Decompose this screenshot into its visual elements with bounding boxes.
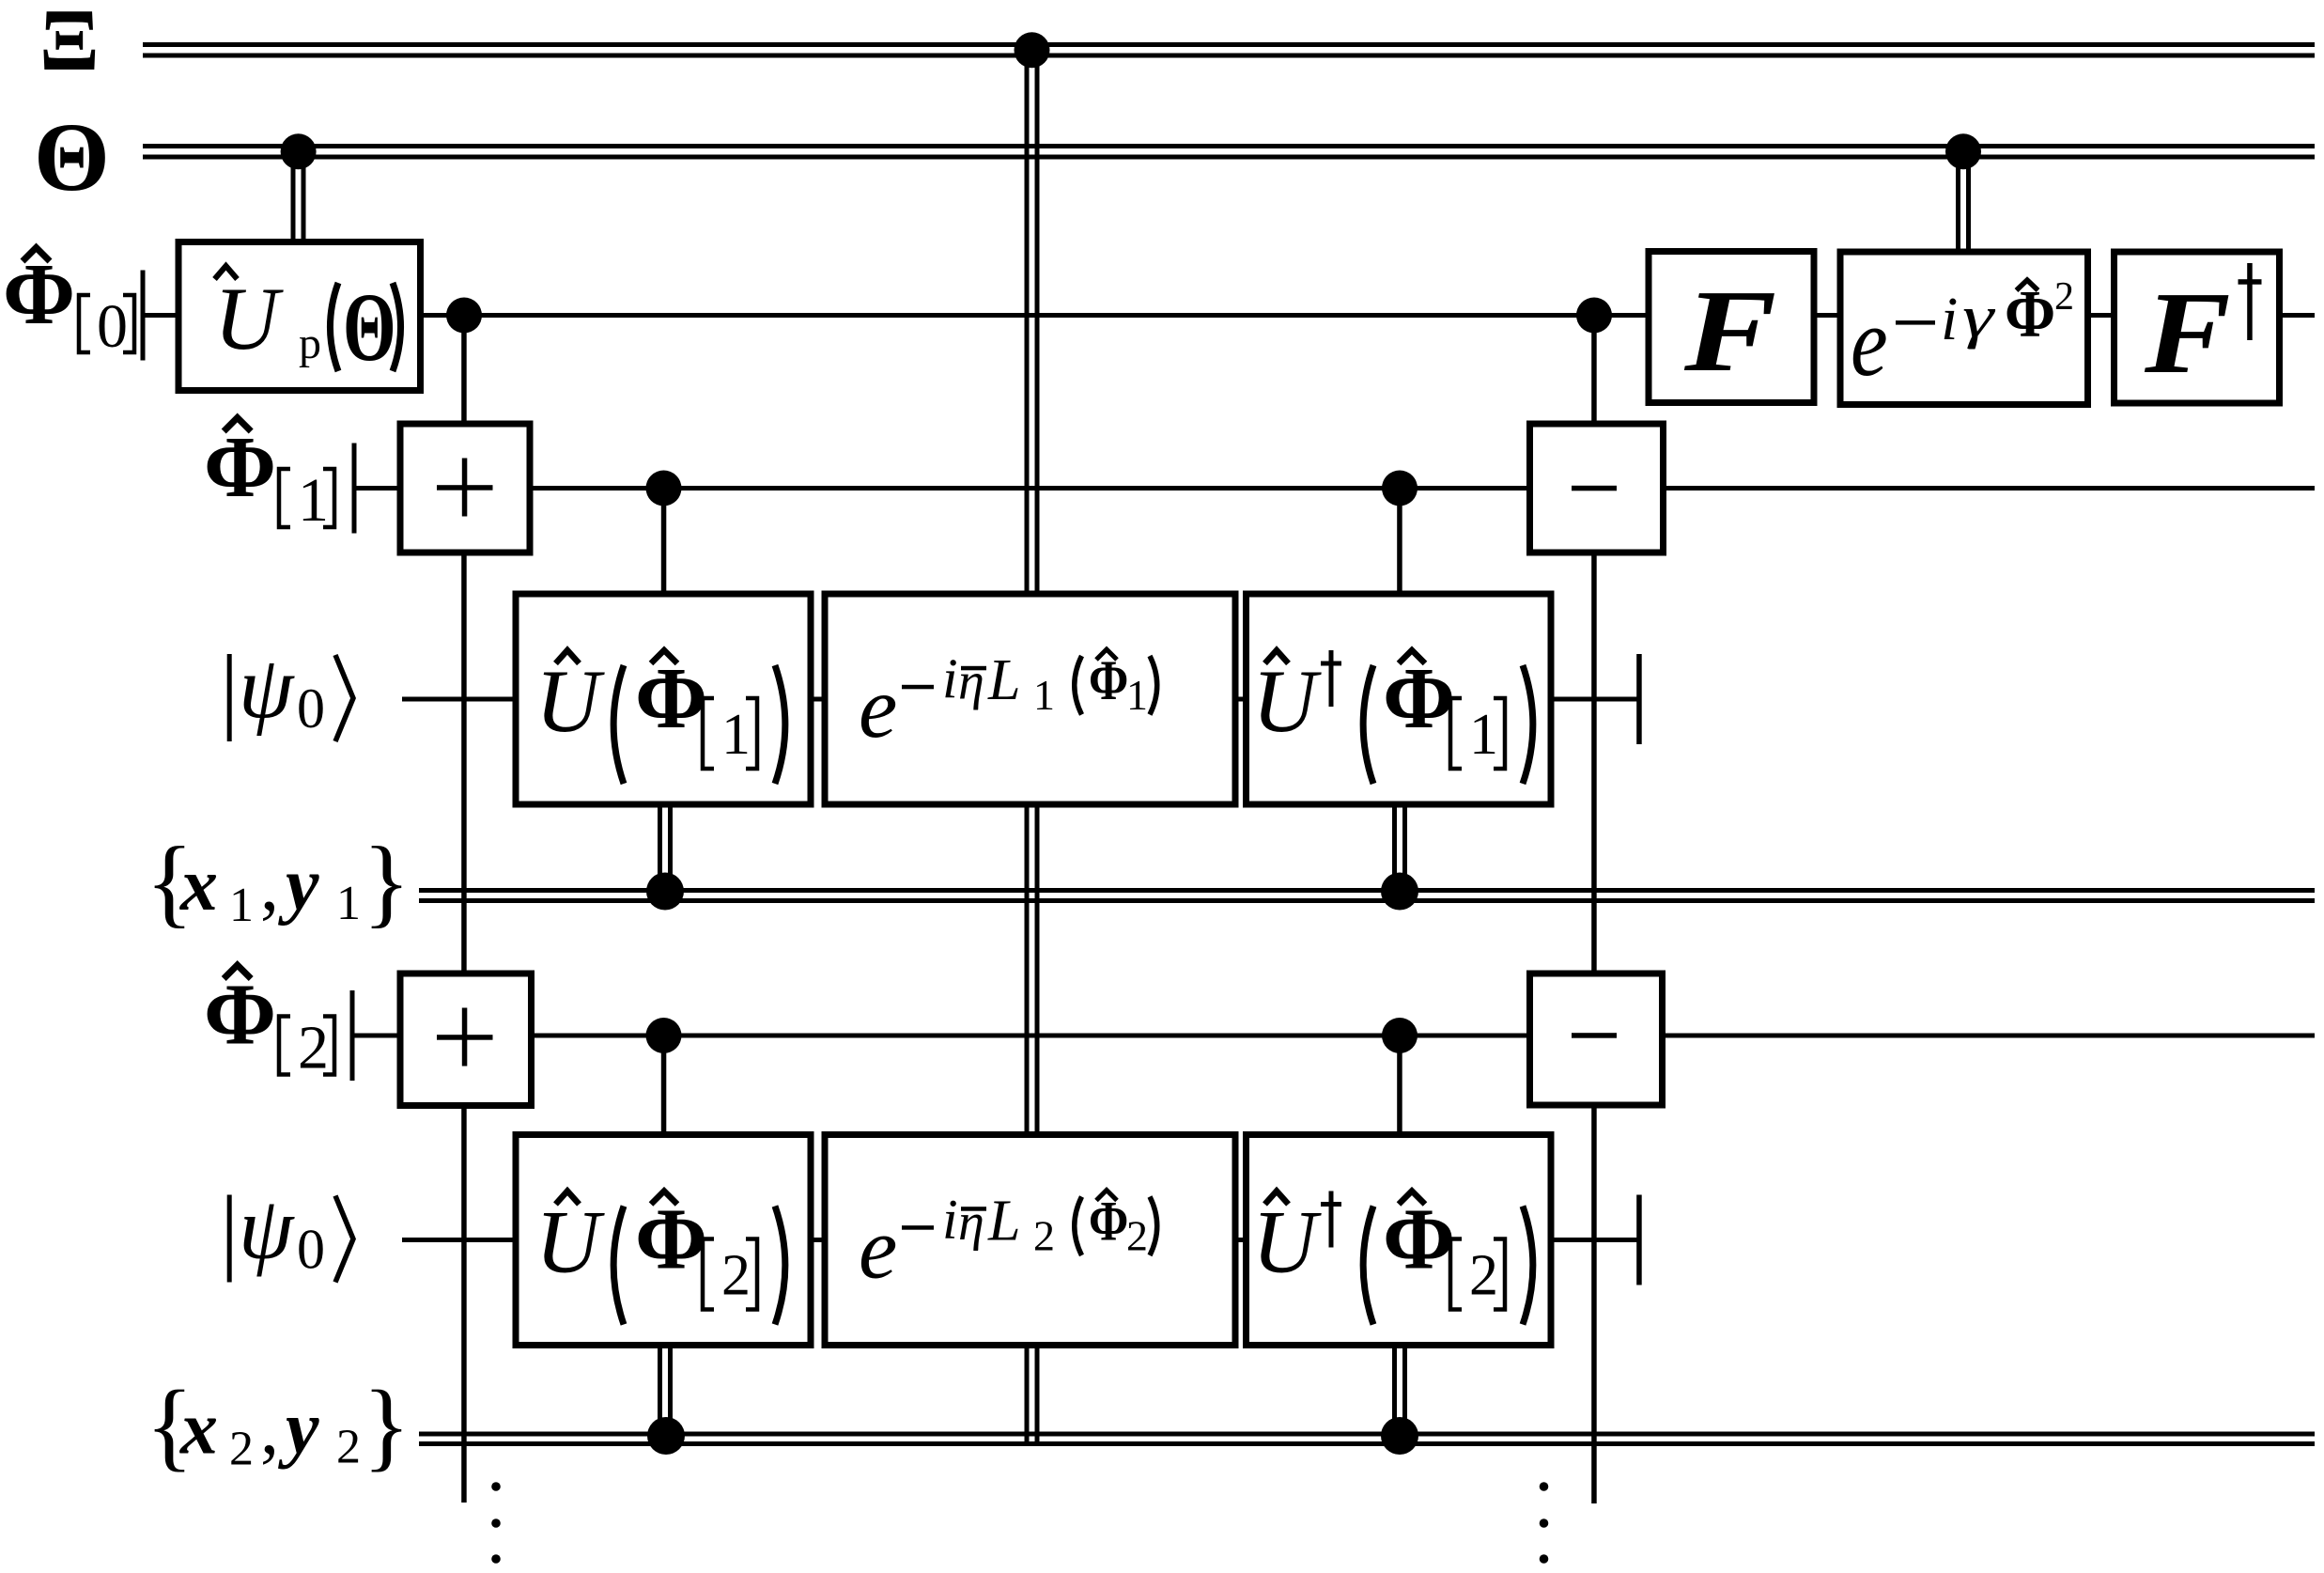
gate label U(Phi[2]) bbox=[535, 1191, 785, 1325]
gate exp(-i eta L1) box bbox=[825, 594, 1235, 804]
svg-text:1: 1 bbox=[1469, 703, 1498, 767]
gate label exp(-i gamma Phi^2) bbox=[1851, 275, 2074, 397]
svg-text:U: U bbox=[535, 1192, 605, 1292]
control line Phi[1] to U-dagger gate bbox=[1397, 489, 1402, 597]
double line U gate row2 to {x2,y2} bbox=[658, 1342, 673, 1443]
svg-text:1: 1 bbox=[229, 879, 254, 932]
vertical line Phi[0] to minus gates (col E) bbox=[1591, 316, 1597, 1504]
termination bar psi row1 bbox=[1636, 654, 1642, 744]
svg-text:2: 2 bbox=[1033, 1212, 1055, 1260]
central double control line Xi to exp gates bbox=[1025, 50, 1040, 1443]
gate label exp(-i eta L1(Phi1)) bbox=[859, 647, 1157, 756]
svg-text:i: i bbox=[1941, 285, 1958, 353]
svg-text:F: F bbox=[1683, 265, 1776, 396]
label set x2 y2 bbox=[146, 1371, 411, 1481]
svg-text:1: 1 bbox=[721, 703, 751, 767]
svg-text:Φ: Φ bbox=[1089, 1191, 1128, 1254]
wire tick Phi[0] bbox=[141, 271, 146, 361]
label ket psi0 row1 bbox=[227, 639, 353, 741]
gate plus box row Phi[2] bbox=[400, 973, 532, 1106]
double line U-dagger gate row2 to {x2,y2} bbox=[1392, 1342, 1407, 1443]
plus symbol row Phi[2] bbox=[437, 1008, 493, 1067]
svg-text:η: η bbox=[958, 1193, 984, 1252]
control dot on Phi[2] right bbox=[1382, 1018, 1418, 1053]
svg-text:}: } bbox=[363, 827, 411, 937]
svg-text:2: 2 bbox=[1469, 1244, 1498, 1308]
svg-text:1: 1 bbox=[1126, 671, 1148, 719]
gate F box bbox=[1649, 252, 1814, 403]
control dot on {x2,y2} right bbox=[1381, 1417, 1418, 1455]
wire tick Phi[2] bbox=[350, 990, 355, 1081]
classical wire {x2,y2} (double line) bbox=[419, 1432, 2315, 1447]
vertical dots right bbox=[1540, 1482, 1549, 1564]
gate plus box row Phi[1] bbox=[400, 424, 530, 553]
svg-text:U: U bbox=[1252, 1192, 1322, 1292]
svg-text:Φ: Φ bbox=[2005, 276, 2055, 350]
classical wire {x1,y1} (double line) bbox=[419, 888, 2315, 903]
vertical line Phi[0] to plus gates (col B) bbox=[461, 316, 467, 1503]
svg-text:p: p bbox=[299, 319, 321, 368]
label Phi[0] bbox=[3, 246, 134, 361]
svg-text:Φ: Φ bbox=[1089, 649, 1128, 712]
svg-text:U: U bbox=[535, 651, 605, 751]
svg-text:γ: γ bbox=[1962, 284, 1996, 350]
gate label U(Phi[1]) bbox=[535, 650, 785, 784]
gate F-dagger box bbox=[2115, 252, 2280, 403]
control dot on {x1,y1} left bbox=[646, 873, 684, 911]
svg-text:2: 2 bbox=[336, 1421, 361, 1474]
gate U(Phi[2]) box bbox=[516, 1135, 811, 1346]
svg-text:Φ: Φ bbox=[1383, 650, 1455, 747]
control dot on Phi[1] right bbox=[1382, 471, 1418, 506]
control dot on Theta (right) bbox=[1945, 133, 1981, 169]
control dot on Phi[0] after Up bbox=[446, 298, 482, 334]
gate label exp(-i eta L2(Phi2)) bbox=[859, 1189, 1157, 1298]
label Theta bbox=[34, 103, 110, 211]
svg-text:Θ: Θ bbox=[34, 103, 110, 211]
svg-text:x: x bbox=[179, 1388, 218, 1471]
minus symbol row Phi[1] bbox=[1572, 486, 1617, 491]
control dot on Phi[0] before F bbox=[1576, 298, 1612, 334]
gate label U-dagger(Phi[2]) bbox=[1252, 1191, 1533, 1325]
svg-text:U: U bbox=[1252, 651, 1322, 751]
quantum wire psi0 row1 bbox=[402, 697, 1639, 702]
gate label Up(Theta) bbox=[214, 266, 401, 382]
label Phi[2] bbox=[204, 965, 334, 1082]
svg-text:Φ: Φ bbox=[204, 967, 276, 1064]
svg-text:U: U bbox=[214, 269, 284, 368]
wire tick Phi[1] bbox=[352, 444, 357, 534]
double control line Theta to exp(-i gamma Phi^2) gate bbox=[1956, 151, 1971, 254]
svg-text:ψ: ψ bbox=[239, 1180, 295, 1278]
vertical dots left bbox=[491, 1482, 501, 1564]
svg-text:2: 2 bbox=[298, 1014, 329, 1082]
control dot on Phi[2] left bbox=[646, 1018, 682, 1053]
svg-text:F: F bbox=[2144, 269, 2231, 398]
gate minus box row Phi[2] bbox=[1530, 973, 1663, 1105]
label Phi[1] bbox=[204, 418, 334, 536]
gate exp(-i gamma Phi^2) box bbox=[1840, 252, 2088, 405]
svg-text:1: 1 bbox=[298, 466, 329, 535]
svg-text:η: η bbox=[958, 653, 984, 711]
gate exp(-i eta L2) box bbox=[825, 1135, 1235, 1346]
gate label F bbox=[1683, 265, 1776, 396]
svg-text:Φ: Φ bbox=[635, 1191, 707, 1288]
termination bar psi row2 bbox=[1636, 1195, 1642, 1285]
control dot on Phi[1] left bbox=[646, 471, 682, 506]
svg-text:2: 2 bbox=[721, 1244, 751, 1308]
svg-text:e: e bbox=[859, 1201, 897, 1298]
svg-text:Ξ: Ξ bbox=[39, 0, 100, 89]
double line U-dagger gate to {x1,y1} bbox=[1392, 802, 1407, 900]
minus symbol row Phi[2] bbox=[1572, 1033, 1617, 1038]
svg-text:ψ: ψ bbox=[239, 639, 295, 737]
quantum wire Phi[0] bbox=[143, 313, 2315, 318]
svg-text:2: 2 bbox=[2054, 275, 2074, 319]
svg-text:L: L bbox=[987, 648, 1020, 712]
quantum wire Phi[2] bbox=[352, 1034, 2315, 1038]
svg-text:0: 0 bbox=[297, 677, 325, 740]
svg-text:Φ: Φ bbox=[3, 246, 75, 343]
svg-text:1: 1 bbox=[336, 877, 361, 930]
svg-text:}: } bbox=[363, 1371, 411, 1481]
classical wire Xi (double line) bbox=[143, 42, 2315, 58]
label ket psi0 row2 bbox=[227, 1180, 353, 1283]
svg-text:i: i bbox=[942, 1189, 958, 1251]
label set x1 y1 bbox=[146, 827, 411, 937]
gate U-dagger(Phi[2]) box bbox=[1247, 1135, 1552, 1346]
control dot on Theta (col A) bbox=[281, 133, 317, 169]
plus symbol row Phi[1] bbox=[437, 459, 493, 517]
control line Phi[2] to U-dagger gate row2 bbox=[1397, 1036, 1402, 1137]
gate U(Phi[1]) box bbox=[516, 594, 811, 804]
svg-text:L: L bbox=[987, 1190, 1020, 1254]
label Xi bbox=[39, 0, 100, 89]
svg-text:0: 0 bbox=[297, 1219, 325, 1281]
svg-text:2: 2 bbox=[229, 1423, 254, 1476]
svg-text:e: e bbox=[859, 660, 897, 756]
svg-text:Φ: Φ bbox=[204, 419, 276, 516]
control dot on Xi (central) bbox=[1015, 32, 1050, 68]
gate minus box row Phi[1] bbox=[1530, 424, 1664, 553]
svg-text:i: i bbox=[942, 647, 958, 709]
gate label F-dagger bbox=[2144, 263, 2262, 398]
quantum wire Phi[1] bbox=[354, 486, 2315, 491]
double line U gate to {x1,y1} bbox=[658, 802, 673, 900]
quantum wire psi0 row2 bbox=[402, 1238, 1639, 1242]
control line Phi[1] to U gate bbox=[661, 489, 667, 597]
control dot on {x1,y1} right bbox=[1381, 873, 1418, 911]
gate label U-dagger(Phi[1]) bbox=[1252, 650, 1533, 784]
control line Phi[2] to U gate row2 bbox=[661, 1036, 667, 1137]
svg-text:2: 2 bbox=[1126, 1212, 1148, 1260]
svg-text:,: , bbox=[260, 1388, 279, 1471]
svg-text:,: , bbox=[260, 844, 279, 927]
control dot on {x2,y2} left bbox=[647, 1417, 685, 1455]
gate U-dagger(Phi[1]) box bbox=[1247, 594, 1552, 804]
svg-text:e: e bbox=[1851, 288, 1888, 397]
double control line Theta to Up gate bbox=[291, 151, 306, 242]
svg-text:1: 1 bbox=[1033, 671, 1055, 719]
svg-text:Φ: Φ bbox=[635, 650, 707, 747]
svg-text:Φ: Φ bbox=[1383, 1191, 1455, 1288]
svg-text:x: x bbox=[179, 844, 218, 927]
classical wire Theta (double line) bbox=[143, 144, 2315, 160]
svg-text:Θ: Θ bbox=[343, 273, 396, 382]
gate Up(Theta) box bbox=[178, 242, 421, 391]
